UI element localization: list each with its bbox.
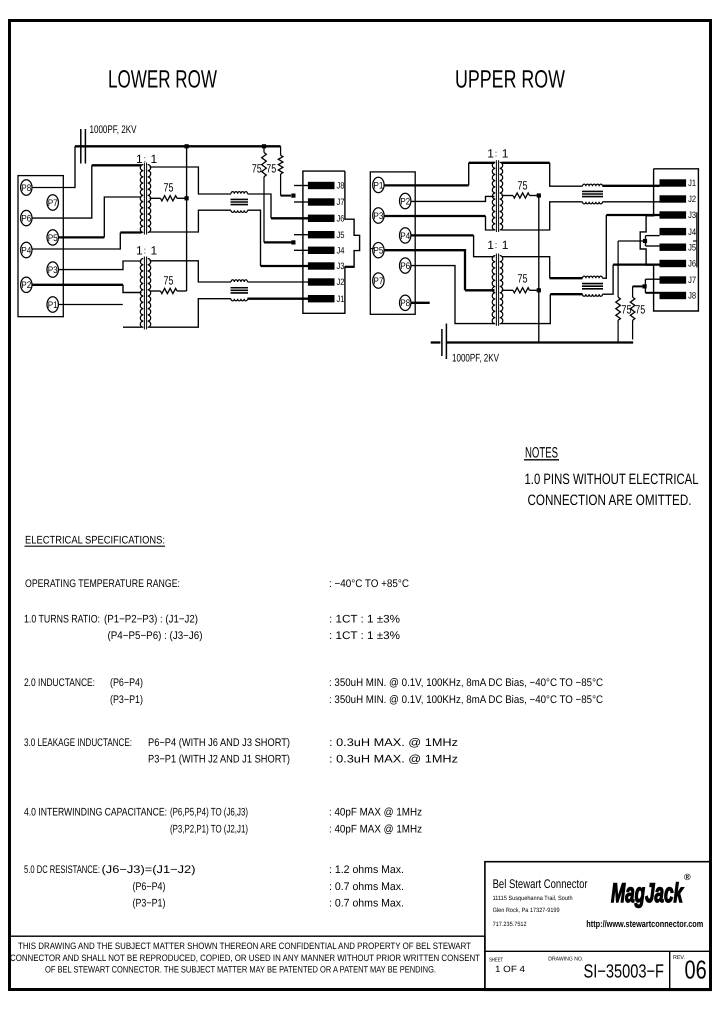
wire T1 secondary bottom to choke CH1 bottom — [150, 210, 232, 232]
junction top net at resistor R1 — [262, 144, 266, 148]
pin P3 lower — [47, 262, 58, 277]
transformer T3 core — [495, 160, 497, 232]
svg-text:SI−35003−F: SI−35003−F — [584, 961, 665, 982]
junction R5 at common vertical — [185, 196, 189, 200]
svg-text:J8: J8 — [688, 291, 696, 301]
svg-text:J3: J3 — [688, 210, 696, 220]
choke CH1 core — [231, 198, 249, 200]
wire R6 to common vertical end — [177, 290, 187, 292]
resistor R2 75 lead from top net — [280, 146, 282, 155]
resistor R4 lead from bottom net — [632, 320, 634, 339]
wire P3 to T3 primary bottom — [384, 215, 485, 217]
svg-text:: 0.3uH MAX. @ 1MHz: : 0.3uH MAX. @ 1MHz — [329, 754, 458, 766]
svg-text:(P1−P2−P3) : (J1−J2): (P1−P2−P3) : (J1−J2) — [104, 614, 198, 626]
svg-text::: : — [495, 149, 498, 159]
jack pin bar J3 lower — [308, 262, 335, 269]
wire P5 to T4 primary center tap — [384, 250, 465, 290]
svg-text:(P6,P5,P4) TO (J6,J3): (P6,P5,P4) TO (J6,J3) — [170, 807, 248, 819]
svg-text:: 0.3uH MAX. @ 1MHz: : 0.3uH MAX. @ 1MHz — [329, 737, 458, 749]
transformer T1 right winding — [148, 165, 151, 233]
pin P2 upper — [400, 193, 411, 208]
svg-text:1.0 PINS WITHOUT ELECTRICAL: 1.0 PINS WITHOUT ELECTRICAL — [525, 471, 699, 488]
choke CH3 bottom winding — [583, 202, 603, 204]
wire top common net lower — [75, 145, 281, 147]
pin P7 upper — [373, 273, 384, 288]
upper row connector box — [370, 172, 415, 314]
svg-text:P1: P1 — [373, 180, 383, 191]
resistor R3 75 body — [616, 297, 621, 320]
svg-text:J4: J4 — [337, 246, 345, 256]
stub J5 — [646, 245, 660, 247]
svg-text:1: 1 — [502, 238, 509, 252]
choke CH2 core — [231, 287, 249, 289]
svg-text:75: 75 — [164, 180, 174, 194]
svg-text:(J6−J3)=(J1−J2): (J6−J3)=(J1−J2) — [102, 864, 196, 876]
svg-text:OF BEL STEWART CONNECTOR. THE: OF BEL STEWART CONNECTOR. THE SUBJECT MA… — [45, 965, 436, 975]
svg-text:J2: J2 — [688, 194, 696, 204]
svg-text:ELECTRICAL SPECIFICATIONS:: ELECTRICAL SPECIFICATIONS: — [25, 535, 165, 547]
resistor R5 75 body — [161, 196, 178, 201]
svg-text:J2: J2 — [337, 277, 345, 287]
pin P6 lower — [21, 210, 32, 225]
title block divider vertical rev — [669, 951, 671, 990]
svg-text:11115 Susquehanna Trail, South: 11115 Susquehanna Trail, South — [493, 895, 573, 902]
svg-text:: 1CT : 1 ±3%: : 1CT : 1 ±3% — [329, 614, 400, 626]
svg-text:: 350uH MIN. @ 0.1V, 100KHz, 8: : 350uH MIN. @ 0.1V, 100KHz, 8mA DC Bias… — [329, 677, 603, 689]
wire T2 secondary top to choke CH2 — [150, 261, 232, 282]
stub J8 — [645, 292, 659, 294]
choke CH1 top winding — [231, 192, 248, 194]
svg-text:P3: P3 — [373, 211, 383, 222]
svg-text:NOTES: NOTES — [525, 445, 558, 462]
svg-text:1000PF, 2KV: 1000PF, 2KV — [452, 353, 499, 365]
disclaimer box — [10, 936, 485, 990]
svg-text:1: 1 — [136, 152, 143, 166]
resistor R2 lower lead — [280, 174, 282, 196]
jack pin bar J5 upper — [660, 244, 687, 251]
choke CH2 top winding — [231, 280, 248, 282]
svg-text:MagJack: MagJack — [611, 878, 684, 908]
wire P3 to T2 primary top — [58, 261, 141, 270]
svg-text:1 OF 4: 1 OF 4 — [495, 964, 525, 974]
transformer T2 right winding — [148, 259, 151, 328]
choke CH3 top winding — [583, 184, 603, 186]
svg-text:: 40pF MAX @ 1MHz: : 40pF MAX @ 1MHz — [329, 807, 422, 819]
svg-text:: 1CT : 1 ±3%: : 1CT : 1 ±3% — [329, 630, 400, 642]
wire T3 secondary top to choke CH3 — [502, 162, 550, 164]
resistor R3 lead from bottom net — [617, 320, 619, 342]
transformer T3 left winding — [492, 162, 495, 230]
lower jack outline with plug notch — [303, 171, 360, 313]
choke CH1 bottom winding — [231, 210, 248, 212]
svg-text:SHEET: SHEET — [489, 958, 503, 964]
svg-text:Bel Stewart Connector: Bel Stewart Connector — [493, 877, 588, 891]
title block outline — [485, 862, 711, 991]
svg-text:J4: J4 — [688, 227, 696, 237]
resistor R3 upper lead — [617, 241, 619, 297]
svg-text:4.0 INTERWINDING CAPACITANCE: 4.0 INTERWINDING CAPACITANCE: — [24, 807, 167, 819]
bracket J4 J5 — [645, 236, 647, 246]
upper jack outline with plug notch — [640, 169, 698, 311]
svg-text:1.0 TURNS RATIO:: 1.0 TURNS RATIO: — [24, 614, 100, 626]
svg-text:P8: P8 — [400, 298, 410, 309]
capacitor C2 plates — [441, 329, 443, 356]
jack pin bar J4 upper — [660, 228, 687, 235]
svg-text:P3: P3 — [48, 265, 58, 276]
stub J7 — [645, 278, 659, 280]
jack pin bar J3 upper — [660, 211, 687, 218]
resistor R8 75 body — [513, 288, 530, 293]
stub J4 — [294, 249, 308, 251]
wire R8 to common vertical — [530, 289, 539, 291]
wire R5 to common vertical — [177, 197, 187, 199]
svg-text:P7: P7 — [48, 198, 58, 209]
transformer T4 core — [495, 254, 497, 326]
wire T3 secondary bottom to choke CH3 bottom — [502, 202, 583, 230]
svg-text:OPERATING TEMPERATURE RANGE:: OPERATING TEMPERATURE RANGE: — [25, 578, 180, 590]
terminal square R1 — [291, 240, 295, 244]
wire T1 secondary top to choke CH1 — [150, 167, 232, 194]
wire R7 to common vertical — [530, 195, 539, 197]
pin P8 upper — [400, 295, 411, 310]
svg-text:1: 1 — [136, 244, 143, 258]
svg-text:J7: J7 — [337, 197, 345, 207]
svg-text:J8: J8 — [337, 181, 345, 191]
svg-text:: 350uH MIN. @ 0.1V, 100KHz, 8: : 350uH MIN. @ 0.1V, 100KHz, 8mA DC Bias… — [329, 694, 603, 706]
svg-text:(P6−P4): (P6−P4) — [133, 881, 166, 893]
svg-text:75: 75 — [164, 273, 174, 287]
lower row connector box — [18, 176, 63, 317]
svg-text:1: 1 — [151, 152, 158, 166]
pin P5 upper — [373, 243, 384, 258]
wire P6 to T4 primary bottom — [411, 266, 495, 324]
svg-text::: : — [495, 240, 498, 250]
svg-text:P5: P5 — [373, 246, 383, 257]
jack pin bar J7 upper — [660, 276, 687, 283]
resistor R6 75 body — [161, 288, 178, 293]
svg-text:DRAWING NO.: DRAWING NO. — [548, 956, 583, 962]
terminal square R3 — [643, 239, 647, 243]
svg-text:P8: P8 — [21, 183, 31, 194]
jack pin bar J2 upper — [660, 195, 687, 202]
pin P6 upper — [400, 258, 411, 273]
transformer T4 left winding — [492, 256, 495, 324]
svg-text:75: 75 — [266, 162, 276, 176]
choke CH4 bottom winding — [583, 294, 603, 296]
resistor R2 75 body — [278, 155, 283, 174]
svg-text:J5: J5 — [688, 242, 696, 252]
bracket right of lower jack labels — [369, 216, 371, 272]
jack pin bar J6 upper — [660, 260, 687, 267]
capacitor C1 plates — [80, 129, 82, 164]
wire choke CH4 top to J3 — [603, 215, 607, 278]
wire T1 secondary CT to resistor R5 — [150, 197, 161, 199]
choke CH3 core — [582, 190, 603, 192]
wire P8 stub — [411, 302, 430, 304]
svg-text:75: 75 — [518, 272, 528, 286]
wire T4 secondary CT to resistor R8 — [502, 289, 514, 291]
resistor R1 75 lead from top net — [263, 146, 265, 152]
wire bottom common net upper — [446, 341, 633, 343]
svg-text:75: 75 — [518, 179, 528, 193]
wire choke CH4 bottom to J6 — [603, 265, 614, 295]
svg-text:1000PF, 2KV: 1000PF, 2KV — [90, 124, 137, 136]
resistor R1 lower lead — [263, 177, 265, 243]
svg-text:http://www.stewartconnector.co: http://www.stewartconnector.com — [586, 919, 703, 930]
svg-text:J6: J6 — [337, 214, 345, 224]
wire choke CH3 top to J1 — [603, 185, 660, 187]
stub J7 — [294, 201, 308, 203]
jack pin bar J2 lower — [308, 278, 335, 285]
wire T2 secondary CT to resistor R6 — [150, 290, 161, 292]
pin P4 upper — [400, 228, 411, 243]
wire T4 secondary bottom to choke CH4 bottom — [502, 294, 551, 323]
pin P2 lower — [21, 277, 32, 292]
wire choke CH3 bottom to J2 — [603, 201, 660, 203]
stub J4 — [646, 235, 660, 237]
resistor R4 75 body — [630, 297, 635, 320]
svg-text:(P3−P1): (P3−P1) — [110, 694, 143, 706]
wire R3 to J4 J5 bracket — [618, 240, 644, 242]
svg-text:P2: P2 — [400, 196, 410, 207]
svg-text:J6: J6 — [688, 259, 696, 269]
transformer T4 right winding — [500, 256, 503, 324]
wire P1 to T3 primary top — [384, 184, 469, 186]
wire T2 secondary bottom to choke CH2 bottom — [150, 299, 232, 328]
wire T3 secondary CT to resistor R7 — [502, 195, 514, 197]
choke CH2 bottom winding — [231, 299, 248, 301]
wire R4 to J7 J8 bracket — [633, 285, 644, 287]
wire P8 to top net — [32, 146, 75, 187]
wire choke CH1 top to J6 — [248, 194, 272, 218]
svg-text:717.235.7512: 717.235.7512 — [493, 921, 527, 928]
svg-text:(P6−P4): (P6−P4) — [110, 677, 143, 689]
svg-text::: : — [144, 246, 147, 256]
wire P6 to T1 primary top — [32, 165, 92, 218]
wire R2 to terminal — [281, 195, 291, 197]
svg-text:CONNECTION ARE OMITTED.: CONNECTION ARE OMITTED. — [528, 492, 692, 509]
wire P4 to T4 primary top — [411, 234, 474, 236]
jack pin bar J5 lower — [308, 231, 335, 238]
svg-text:THIS DRAWING AND THE SUBJECT M: THIS DRAWING AND THE SUBJECT MATTER SHOW… — [18, 941, 471, 951]
svg-text:P5: P5 — [48, 233, 58, 244]
lower jack notch bottom step thick segment — [345, 266, 354, 268]
svg-text:LOWER ROW: LOWER ROW — [108, 66, 217, 94]
junction R8 common vertical — [537, 288, 541, 292]
svg-text:1: 1 — [151, 244, 158, 258]
jack pin bar J1 upper — [660, 179, 687, 186]
bracket J7 J8 — [644, 279, 646, 293]
choke CH4 core — [582, 283, 603, 285]
wire choke CH2 bottom to J1 — [248, 298, 309, 300]
svg-text:3.0 LEAKAGE INDUCTANCE:: 3.0 LEAKAGE INDUCTANCE: — [24, 737, 132, 749]
transformer T1 core — [143, 163, 145, 235]
svg-text:75: 75 — [252, 162, 262, 176]
wire R1 to terminal — [264, 241, 291, 243]
junction R7 common vertical — [537, 193, 541, 197]
svg-text:2.0 INDUCTANCE:: 2.0 INDUCTANCE: — [24, 677, 95, 689]
svg-text:J1: J1 — [688, 178, 696, 188]
svg-text:P2: P2 — [21, 280, 31, 291]
svg-text:: 1.2 ohms Max.: : 1.2 ohms Max. — [329, 864, 404, 876]
svg-text:(P3,P2,P1) TO (J2,J1): (P3,P2,P1) TO (J2,J1) — [170, 823, 248, 835]
terminal square R2 — [291, 194, 295, 198]
wire P4 to T1 primary bottom — [32, 233, 120, 250]
wire common vertical upper — [538, 196, 540, 343]
junction top net at common vertical — [185, 144, 189, 148]
stub J5 — [294, 234, 308, 236]
jack pin bar J7 lower — [308, 198, 335, 205]
svg-text:J3: J3 — [337, 261, 345, 271]
svg-text:P6: P6 — [21, 214, 31, 225]
stub J8 — [294, 185, 308, 187]
svg-text:P3−P1 (WITH J2 AND J1 SHORT): P3−P1 (WITH J2 AND J1 SHORT) — [148, 754, 290, 766]
transformer T3 right winding — [500, 162, 503, 230]
wire choke CH1 bottom to J3 — [248, 210, 261, 266]
pin P3 upper — [373, 208, 384, 223]
jack pin bar J8 lower — [308, 182, 335, 189]
svg-text:1: 1 — [487, 147, 494, 161]
svg-text:: −40°C TO +85°C: : −40°C TO +85°C — [329, 578, 409, 590]
svg-text:P7: P7 — [373, 276, 383, 287]
wire T4 secondary top to choke CH4 — [502, 257, 550, 279]
bracket right of upper jack labels — [696, 212, 698, 267]
svg-text:1: 1 — [502, 147, 509, 161]
svg-text:75: 75 — [635, 302, 645, 316]
svg-text:06: 06 — [685, 954, 707, 984]
svg-text:(P4−P5−P6) : (J3−J6): (P4−P5−P6) : (J3−J6) — [108, 630, 203, 642]
svg-text:P6−P4 (WITH J6 AND J3 SHORT): P6−P4 (WITH J6 AND J3 SHORT) — [148, 737, 290, 749]
svg-text:: 0.7 ohms Max.: : 0.7 ohms Max. — [329, 881, 404, 893]
pin P1 upper — [373, 177, 384, 192]
jack pin bar J8 upper — [660, 292, 687, 299]
svg-text:P4: P4 — [21, 245, 31, 256]
wire P2 to T3 primary center tap — [411, 196, 495, 201]
svg-text:: 40pF MAX @ 1MHz: : 40pF MAX @ 1MHz — [329, 823, 422, 835]
transformer T2 core — [143, 257, 145, 330]
svg-text:1: 1 — [487, 238, 494, 252]
resistor R1 75 body — [262, 153, 267, 177]
transformer T2 left winding — [140, 259, 143, 328]
svg-text:UPPER ROW: UPPER ROW — [455, 66, 565, 94]
pin P8 lower — [21, 180, 32, 195]
pin P7 lower — [47, 195, 58, 210]
transformer T1 left winding — [140, 165, 143, 233]
svg-text:J7: J7 — [688, 275, 696, 285]
svg-text:CONNECTOR AND SHALL NOT BE REP: CONNECTOR AND SHALL NOT BE REPRODUCED, C… — [10, 953, 480, 963]
wire choke CH2 top to J2 — [248, 281, 309, 283]
pin P1 lower — [47, 297, 58, 312]
jack pin bar J6 lower — [308, 215, 335, 222]
wire P1 stub — [58, 304, 122, 306]
wire P5 to T1 primary center tap — [58, 236, 104, 238]
svg-text:5.0 DC RESISTANCE:: 5.0 DC RESISTANCE: — [24, 864, 100, 876]
svg-text:P6: P6 — [400, 261, 410, 272]
svg-text:: 0.7 ohms Max.: : 0.7 ohms Max. — [329, 898, 404, 910]
title block divider horizontal — [485, 950, 711, 952]
svg-text:J1: J1 — [337, 294, 345, 304]
svg-text:P4: P4 — [400, 231, 410, 242]
wire T2 primary bottom stub — [123, 326, 142, 328]
svg-text:®: ® — [684, 872, 691, 882]
svg-text:P1: P1 — [48, 300, 58, 311]
capacitor C2 lead — [431, 341, 441, 343]
wire P2 to T2 primary center tap — [32, 284, 123, 286]
svg-text:(P3−P1): (P3−P1) — [133, 898, 166, 910]
pin P4 lower — [21, 242, 32, 257]
resistor R4 upper lead — [632, 286, 634, 297]
terminal square R4 — [643, 284, 647, 288]
svg-text:J5: J5 — [337, 230, 345, 240]
pin P5 lower — [47, 230, 58, 245]
wire common vertical lower — [186, 146, 188, 291]
jack pin bar J4 lower — [308, 247, 335, 254]
svg-text:Glen Rock, Pa 17327-9199: Glen Rock, Pa 17327-9199 — [493, 907, 560, 914]
jack pin bar J1 lower — [308, 295, 335, 302]
resistor R7 75 body — [513, 193, 530, 198]
choke CH4 top winding — [583, 276, 603, 278]
